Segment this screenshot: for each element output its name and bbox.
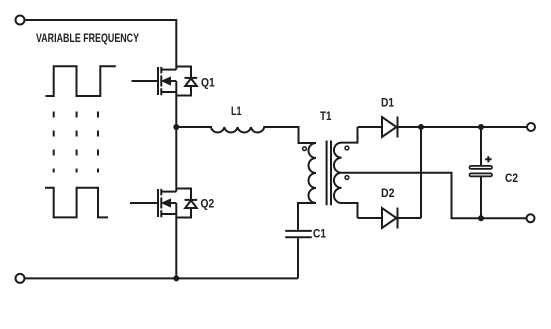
body diode loop Q1 (176, 67, 191, 96)
wire center tap to output bottom rail (342, 173, 527, 219)
source stub Q1 (161, 91, 176, 93)
body diode cathode bar Q2 (185, 199, 198, 201)
phasing dot primary (303, 147, 307, 151)
body diode triangle Q1 (185, 78, 197, 86)
D1 triangle (382, 117, 396, 137)
D1 cathode wire (398, 126, 528, 128)
capacitor C1 (285, 231, 312, 279)
svg-text:Q2: Q2 (201, 198, 215, 210)
junction dot C2 top (478, 124, 484, 130)
svg-text:T1: T1 (320, 111, 332, 123)
gate wire Q2 (130, 202, 157, 204)
D1 cathode bar (397, 117, 399, 138)
dashed timing line 1 (53, 112, 55, 173)
transformer core (327, 141, 331, 206)
D2 cathode wire (398, 217, 422, 219)
junction dot bottom rail (173, 275, 179, 281)
C2 top riser (480, 127, 482, 166)
waveform bottom square wave (45, 188, 108, 218)
junction dot D1 cathode (418, 124, 424, 130)
gate wire Q1 (132, 80, 158, 82)
C2 plus sign (485, 156, 491, 162)
terminal output bottom-right (527, 214, 535, 222)
body stub Q1 (170, 80, 177, 82)
body-source rail Q1 (175, 81, 177, 127)
inductor L1 (176, 127, 316, 143)
body diode cathode bar Q1 (185, 77, 198, 79)
C1 top plate (285, 230, 312, 232)
C2 bottom plate (470, 173, 493, 176)
body arrow Q2 (162, 199, 171, 207)
channel segments Q1 (160, 67, 162, 95)
waveform top square wave (46, 66, 116, 96)
svg-text:Q1: Q1 (201, 78, 215, 90)
svg-text:L1: L1 (231, 106, 242, 118)
wire D2 cathode to D1 cathode (420, 127, 422, 218)
svg-text:C2: C2 (505, 173, 518, 185)
source stub Q2 (161, 213, 176, 215)
secondary bottom lead (342, 203, 358, 218)
phasing dot secondary mid (345, 176, 349, 180)
capacitor C2 (polarized) (470, 127, 493, 218)
primary bottom lead to C1 (298, 203, 316, 230)
body arrow Q1 (162, 77, 171, 85)
phasing dot secondary top (345, 146, 349, 150)
svg-text:VARIABLE FREQUENCY: VARIABLE FREQUENCY (36, 31, 139, 45)
gate bar Q2 (157, 189, 159, 217)
drain rail Q2 from node (175, 127, 177, 192)
transistor Q1 (N-MOSFET with body diode) (132, 67, 198, 128)
body diode triangle Q2 (185, 200, 197, 208)
wire top rail to Q1 drain (25, 20, 177, 70)
terminal input bottom-left (16, 274, 25, 283)
gate bar Q1 (157, 67, 159, 95)
svg-text:D1: D1 (381, 98, 395, 110)
terminal input top-left (16, 16, 25, 25)
junction dot C2 bottom (478, 215, 484, 221)
transformer T1 secondary winding (334, 143, 342, 203)
transistor Q2 (N-MOSFET with body diode) (130, 127, 197, 278)
drain stub Q2 (161, 191, 176, 193)
channel segments Q2 (160, 189, 162, 217)
bottom rail wire (25, 277, 299, 279)
dashed timing line 3 (97, 112, 99, 173)
svg-text:C1: C1 (313, 228, 327, 240)
diode D1 (358, 117, 528, 138)
diode D2 (358, 208, 422, 229)
secondary top lead (342, 127, 358, 143)
D2 triangle (382, 208, 396, 228)
D1 anode wire (358, 126, 383, 128)
svg-text:D2: D2 (381, 188, 395, 200)
terminal output top-right (527, 123, 535, 131)
C2 top plate (470, 166, 493, 169)
C2 bottom riser (480, 177, 482, 219)
body stub Q2 (170, 202, 177, 204)
node midpoint junction (173, 124, 179, 130)
transformer T1 primary winding (309, 143, 317, 203)
body-source rail Q2 (175, 203, 177, 278)
dashed timing line 2 (76, 112, 78, 173)
C1 bottom riser (297, 238, 299, 278)
D2 cathode bar (397, 208, 399, 229)
C1 bottom plate (285, 236, 312, 238)
body diode loop Q2 (176, 189, 191, 218)
drain stub Q1 (161, 69, 176, 71)
D2 anode wire (358, 217, 383, 219)
